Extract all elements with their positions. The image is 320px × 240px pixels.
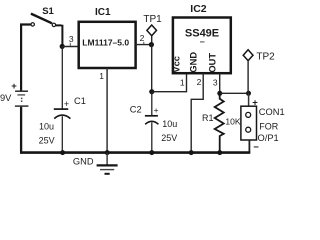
svg-text:1: 1 bbox=[99, 71, 104, 81]
svg-text:SS49E: SS49E bbox=[185, 27, 219, 39]
svg-text:Vcc: Vcc bbox=[172, 56, 182, 73]
node D junction bbox=[217, 91, 222, 96]
svg-text:S1: S1 bbox=[42, 6, 54, 17]
switch S1 bbox=[31, 14, 56, 27]
node A junction bbox=[60, 44, 65, 49]
battery 9V bbox=[15, 91, 29, 106]
svg-text:+: + bbox=[154, 105, 159, 115]
capacitor C1 bbox=[54, 46, 71, 152]
wire node A to IC1 pin3 bbox=[62, 46, 78, 48]
svg-text:10u: 10u bbox=[162, 119, 177, 129]
svg-text:R1: R1 bbox=[202, 113, 214, 123]
svg-text:TP1: TP1 bbox=[143, 14, 162, 25]
svg-text:C2: C2 bbox=[130, 105, 142, 115]
svg-text:2: 2 bbox=[197, 77, 202, 87]
junction below IC1 pin1 bbox=[105, 150, 110, 155]
regulator IC1 box bbox=[79, 22, 136, 68]
svg-text:IC1: IC1 bbox=[95, 7, 111, 18]
wire node D to node E bbox=[220, 92, 249, 94]
svg-text:TP2: TP2 bbox=[256, 52, 275, 63]
svg-text:10u: 10u bbox=[39, 121, 54, 131]
svg-text:10K: 10K bbox=[225, 116, 240, 126]
svg-text:O/P1: O/P1 bbox=[258, 133, 279, 143]
svg-text:FOR: FOR bbox=[259, 121, 278, 131]
svg-text:GND: GND bbox=[73, 157, 94, 167]
wire node B down to node C bbox=[151, 45, 153, 92]
svg-text:−: − bbox=[253, 142, 259, 153]
svg-text:3: 3 bbox=[69, 34, 74, 44]
svg-text:1: 1 bbox=[180, 77, 185, 87]
svg-text:C1: C1 bbox=[74, 96, 86, 106]
svg-text:3: 3 bbox=[213, 77, 218, 87]
junction below C2 bbox=[149, 150, 154, 155]
junction below IC2 GND bbox=[189, 150, 194, 155]
svg-text:9V: 9V bbox=[0, 93, 12, 103]
IC2 box bbox=[173, 18, 231, 74]
test point TP2 bbox=[243, 50, 253, 61]
svg-text:25V: 25V bbox=[39, 135, 55, 145]
wire node C to IC2 pin1 (Vcc) bbox=[152, 73, 187, 92]
resistor R1 bbox=[215, 93, 224, 152]
pin 3 tick bbox=[69, 43, 71, 46]
junction below R1 bbox=[217, 150, 222, 155]
node E junction bbox=[246, 91, 251, 96]
svg-text:LM1117–5.0: LM1117–5.0 bbox=[82, 37, 129, 47]
wire IC2 pin3 (OUT) down to node D bbox=[219, 73, 221, 93]
connector CON1 bbox=[241, 93, 257, 152]
node C junction bbox=[149, 89, 154, 94]
wire IC1 pin1 down to rail bbox=[106, 68, 108, 153]
node B junction bbox=[149, 42, 154, 47]
ground symbol bbox=[97, 153, 118, 174]
wire battery negative down to rail bbox=[20, 107, 22, 153]
wire IC2 pin2 (GND) down to rail bbox=[191, 73, 203, 152]
small dash under SS49E bbox=[200, 41, 205, 43]
capacitor C2 bbox=[145, 92, 159, 153]
svg-text:+: + bbox=[252, 97, 258, 108]
wire IC1 pin2 to node B bbox=[136, 44, 152, 46]
pin 2 tick bbox=[143, 42, 145, 44]
ground rail wire bbox=[20, 151, 250, 154]
wire battery positive up and right to switch bbox=[20, 25, 31, 92]
junction below C1 bbox=[60, 150, 65, 155]
wire switch to node A bbox=[56, 25, 63, 47]
svg-text:CON1: CON1 bbox=[259, 107, 285, 117]
svg-text:+: + bbox=[11, 81, 17, 92]
svg-text:+: + bbox=[64, 99, 69, 109]
svg-text:OUT: OUT bbox=[208, 53, 218, 73]
svg-text:2: 2 bbox=[140, 33, 145, 43]
test point TP1 bbox=[147, 25, 157, 36]
svg-text:IC2: IC2 bbox=[190, 3, 207, 15]
svg-text:GND: GND bbox=[189, 52, 199, 73]
svg-text:25V: 25V bbox=[161, 133, 177, 143]
